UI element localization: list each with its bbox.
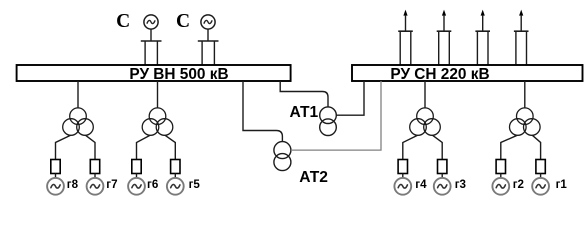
generator г4 — [394, 178, 411, 195]
busbar РУ ВН 500 кВ — [17, 65, 291, 83]
breaker of г1 — [536, 160, 545, 174]
breaker of г3 — [438, 160, 447, 174]
three-winding transformer T3 — [410, 108, 441, 135]
wire T3 to breaker of г4 — [403, 135, 418, 159]
wire T3 to breaker of г3 — [432, 135, 442, 159]
wire breaker to generator г7 — [94, 174, 96, 179]
wire T4 to breaker of г1 — [532, 135, 540, 159]
svg-text:г8: г8 — [67, 178, 79, 191]
wire source С1 to bay — [150, 29, 152, 41]
wire ВН bus to АТ2 — [243, 81, 282, 142]
svg-text:РУ СН 220 кВ: РУ СН 220 кВ — [390, 66, 489, 83]
generator г2 — [492, 178, 509, 195]
svg-text:С: С — [176, 11, 190, 32]
wire breaker to generator г5 — [174, 174, 176, 179]
bay leads line 2 — [437, 31, 452, 65]
wire T4 to breaker of г2 — [501, 135, 518, 159]
three-winding transformer T4 — [510, 108, 541, 135]
bay leads line 3 — [475, 31, 490, 65]
wire T2 to breaker of г6 — [137, 135, 151, 159]
AC source С2 — [176, 11, 215, 32]
breaker of г7 — [90, 160, 99, 174]
breaker of г4 — [398, 160, 407, 174]
svg-text:АТ2: АТ2 — [299, 169, 328, 186]
bay leads line 1 — [398, 31, 413, 65]
wire T2 to breaker of г5 — [165, 135, 175, 159]
generator г7 — [87, 178, 104, 195]
svg-text:г2: г2 — [513, 178, 524, 191]
bay leads line 4 — [514, 31, 529, 65]
three-winding transformer T2 — [142, 108, 173, 135]
outgoing line 4 (arrow) — [519, 10, 523, 32]
autotransformer АТ1 — [320, 107, 337, 136]
wire breaker to generator г3 — [441, 174, 443, 179]
wire breaker to generator г6 — [136, 174, 138, 179]
outgoing line 1 (arrow) — [403, 10, 407, 32]
wire ВН bus to АТ1 — [280, 81, 328, 107]
wire АТ2 to СН bus (grey) — [291, 81, 381, 150]
svg-text:С: С — [116, 11, 130, 32]
three-winding transformer T1 — [63, 108, 94, 135]
wire bus to transformer T4 — [524, 81, 526, 108]
svg-text:г5: г5 — [189, 178, 201, 191]
wire breaker to generator г2 — [500, 174, 502, 179]
bay leads source С2 — [198, 41, 219, 66]
breaker of г5 — [171, 160, 180, 174]
AC source С1 — [116, 11, 158, 32]
breaker of г2 — [496, 160, 505, 174]
svg-text:г7: г7 — [106, 178, 117, 191]
generator г8 — [47, 178, 64, 195]
svg-text:РУ ВН 500 кВ: РУ ВН 500 кВ — [129, 66, 228, 83]
wire АТ1 to СН bus — [336, 81, 364, 115]
outgoing line 2 (arrow) — [442, 10, 446, 32]
wire source С2 to bay — [207, 29, 209, 41]
svg-text:г3: г3 — [455, 178, 467, 191]
wire breaker to generator г1 — [540, 174, 542, 179]
outgoing line 3 (arrow) — [481, 10, 485, 32]
autotransformer АТ2 — [274, 142, 291, 171]
svg-text:г4: г4 — [415, 178, 427, 191]
wire breaker to generator г4 — [402, 174, 404, 179]
svg-text:г1: г1 — [556, 178, 568, 191]
generator г1 — [532, 178, 549, 195]
wire T1 to breaker of г8 — [56, 135, 71, 159]
wire breaker to generator г8 — [55, 174, 57, 179]
wire bus to transformer T3 — [424, 81, 426, 108]
svg-text:г6: г6 — [147, 178, 159, 191]
wire T1 to breaker of г7 — [85, 135, 95, 159]
breaker of г8 — [51, 160, 60, 174]
wire bus to transformer T1 — [77, 81, 79, 108]
bay leads source С1 — [141, 41, 162, 66]
breaker of г6 — [132, 160, 141, 174]
generator г3 — [434, 178, 451, 195]
svg-text:АТ1: АТ1 — [290, 104, 319, 121]
wire bus to transformer T2 — [157, 81, 159, 108]
busbar РУ СН 220 кВ — [352, 65, 583, 83]
generator г6 — [128, 178, 145, 195]
generator г5 — [167, 178, 184, 195]
